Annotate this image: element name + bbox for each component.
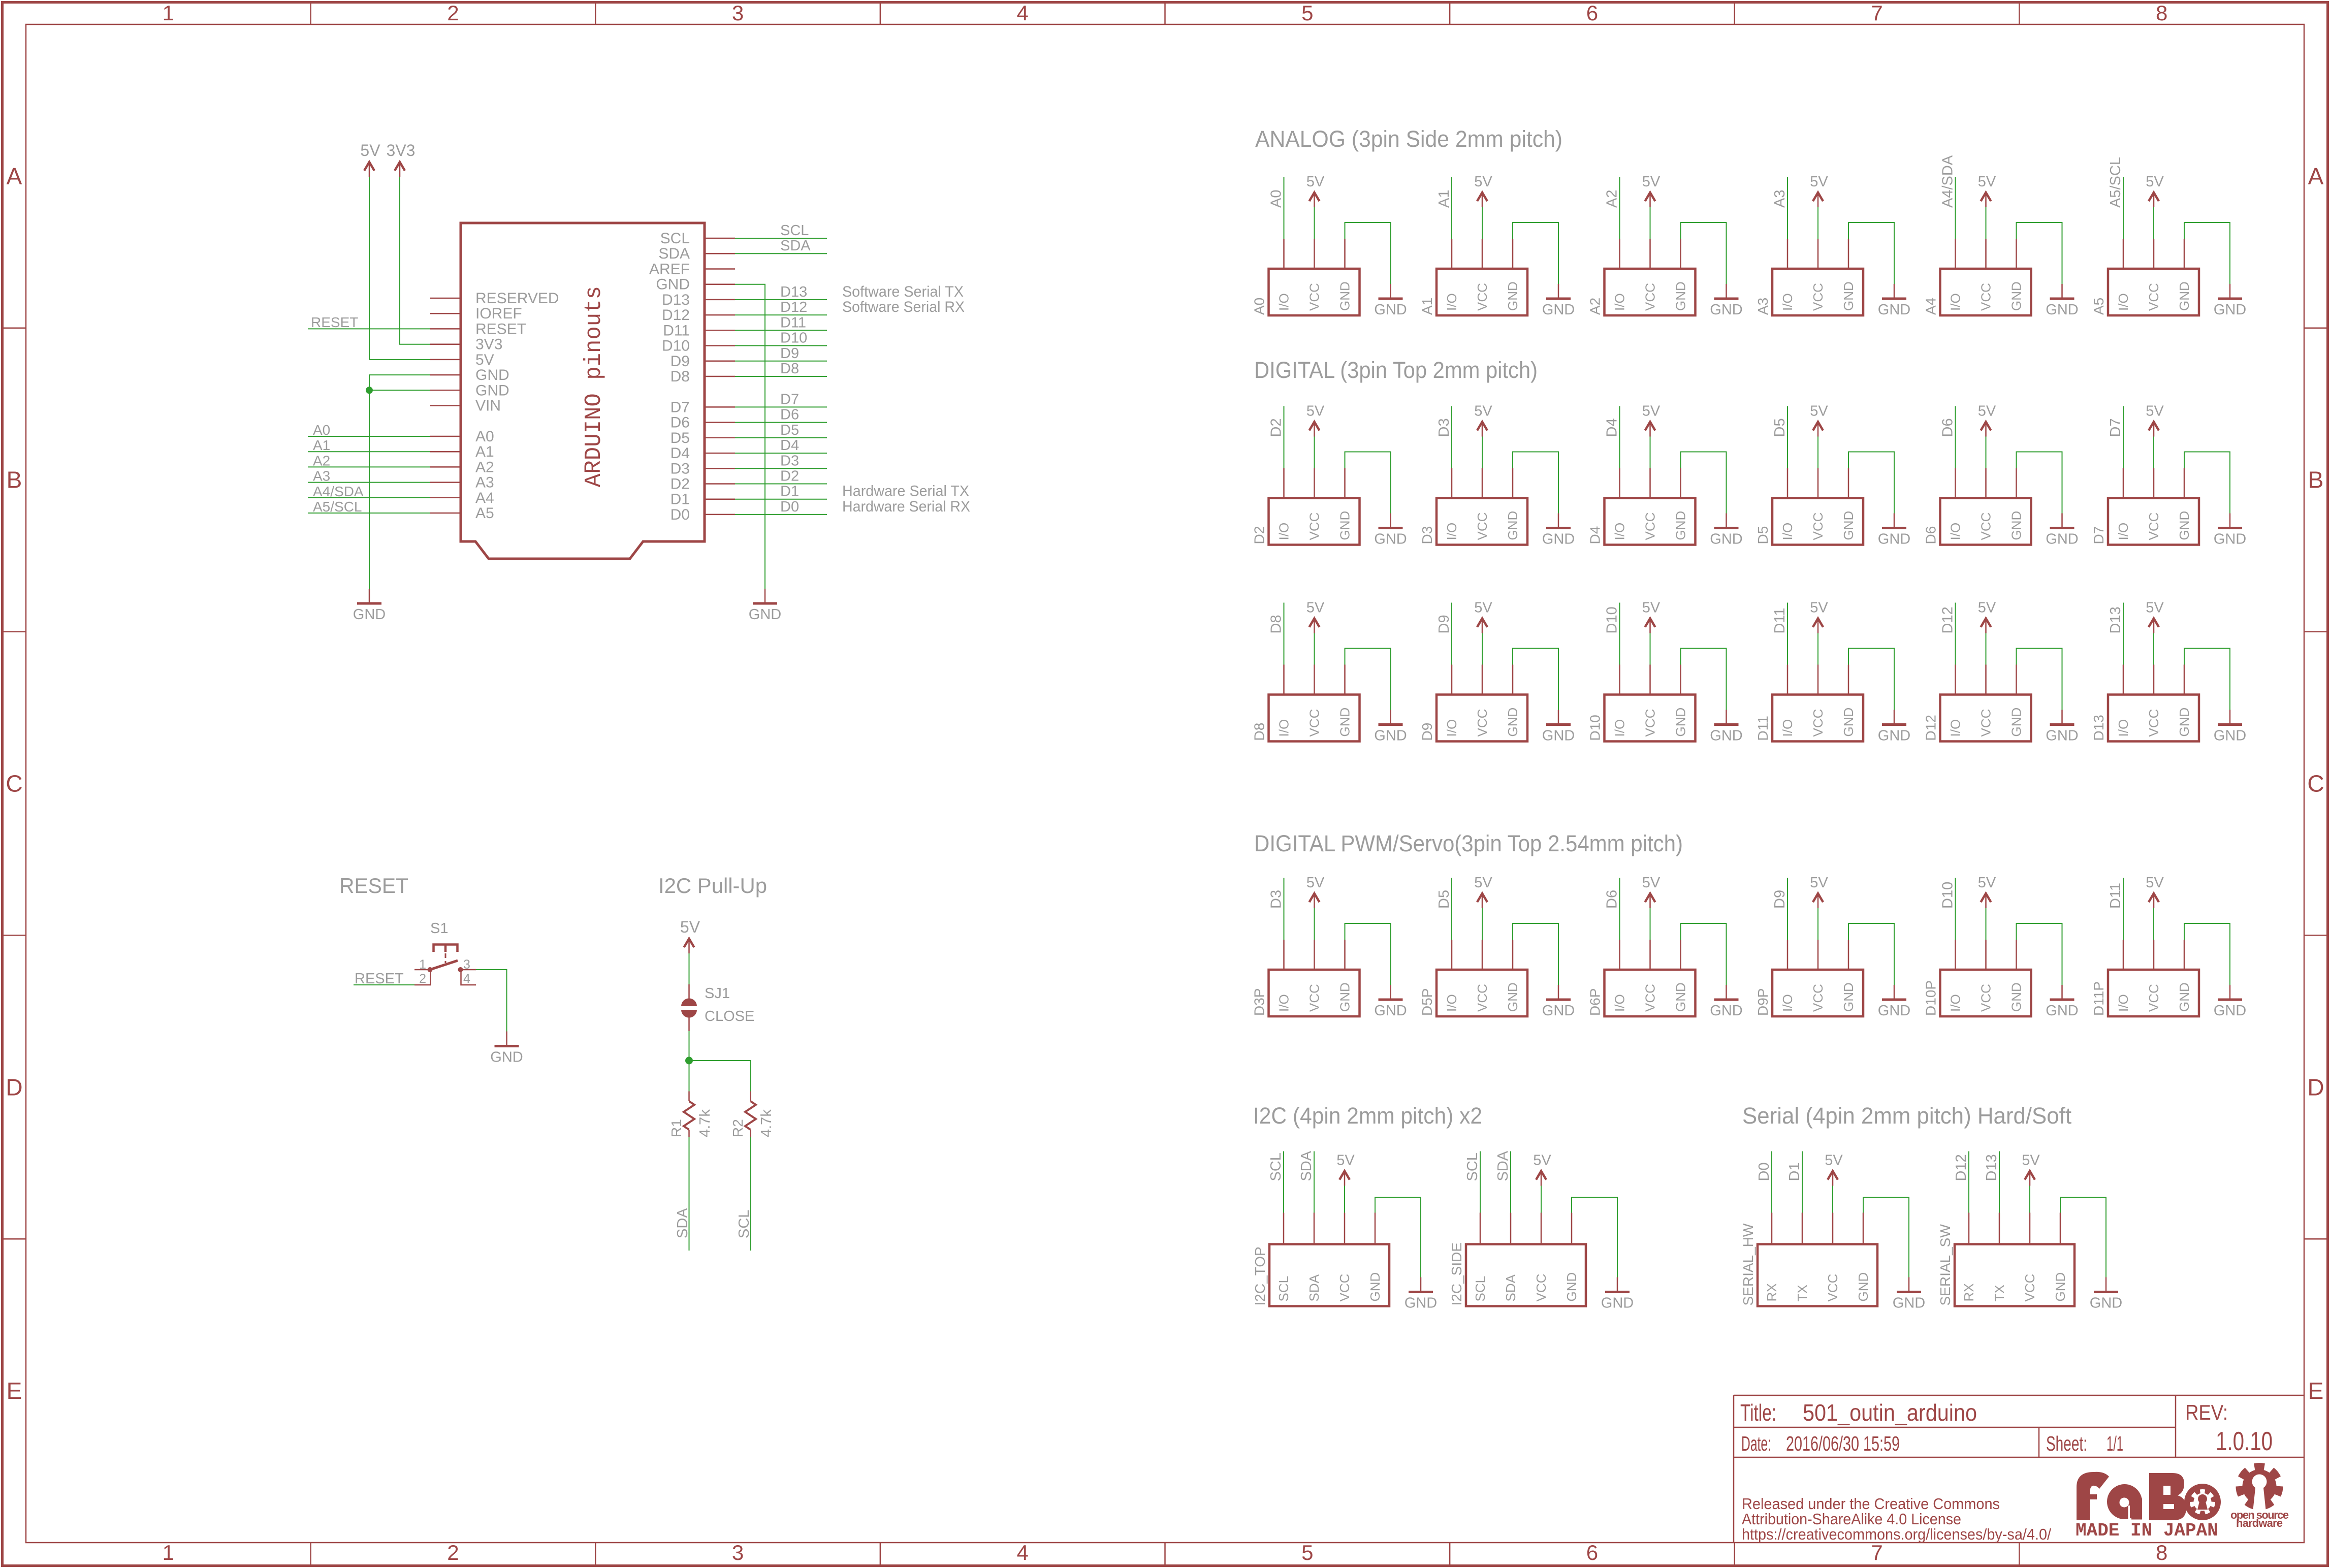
svg-text:D4: D4 (1587, 526, 1603, 545)
svg-text:A2: A2 (1604, 190, 1620, 208)
svg-text:GND: GND (1841, 281, 1856, 311)
svg-text:GND: GND (1337, 281, 1353, 311)
connector D3P (3pin header) (1252, 940, 1360, 1016)
svg-text:SDA: SDA (675, 1208, 691, 1238)
svg-text:GND: GND (1673, 708, 1688, 737)
svg-text:GND: GND (1673, 511, 1688, 540)
wire net D5 (right) (735, 422, 827, 438)
svg-text:D5: D5 (1772, 418, 1788, 437)
power 5V supply of D10 (1642, 600, 1661, 665)
svg-text:GND: GND (749, 606, 781, 623)
svg-text:C: C (6, 771, 22, 797)
svg-text:GND: GND (2046, 728, 2078, 744)
svg-text:GND: GND (656, 276, 690, 293)
wire net SDA (1298, 1150, 1315, 1212)
power 5V supply of SERIAL_HW (1825, 1153, 1843, 1213)
wire net A4/SDA (1940, 155, 1956, 239)
wire 5V to SJ1 (689, 953, 690, 984)
svg-text:GND: GND (2009, 281, 2024, 311)
svg-text:D11P: D11P (2091, 981, 2106, 1016)
connector A1 (3pin header) (1419, 239, 1527, 315)
wire net SCL (1464, 1151, 1481, 1213)
svg-text:SCL: SCL (1473, 1276, 1488, 1302)
ground of D8 (1345, 649, 1407, 744)
wire net D12 (1940, 603, 1956, 665)
wire net D10 (right) (735, 330, 827, 346)
svg-text:VCC: VCC (1810, 283, 1826, 311)
svg-text:D9: D9 (1436, 615, 1452, 633)
license text (1742, 1495, 2051, 1543)
svg-text:5V: 5V (1642, 875, 1661, 891)
svg-text:GND: GND (2009, 708, 2024, 737)
svg-text:D9: D9 (671, 353, 690, 370)
svg-text:SCL: SCL (1276, 1276, 1291, 1302)
svg-text:3: 3 (732, 1, 744, 25)
svg-text:R1: R1 (668, 1119, 684, 1137)
svg-text:D10P: D10P (1923, 980, 1939, 1016)
svg-text:D12: D12 (780, 299, 807, 315)
svg-text:SDA: SDA (1306, 1274, 1322, 1301)
svg-text:VCC: VCC (2146, 709, 2161, 737)
wire net SDA (pull-up) (675, 1137, 691, 1251)
svg-text:SDA: SDA (658, 245, 690, 262)
svg-text:3V3: 3V3 (475, 336, 502, 353)
ground of I2C_TOP (1375, 1198, 1437, 1311)
power 5V supply of D5P (1474, 875, 1492, 940)
svg-text:501_outin_arduino: 501_outin_arduino (1803, 1399, 1977, 1426)
wire net D2 (1268, 406, 1285, 468)
svg-text:GND: GND (2090, 1295, 2122, 1311)
wire GND net (right) (735, 284, 765, 589)
svg-text:GND: GND (1841, 511, 1856, 540)
svg-text:I/O: I/O (1948, 719, 1963, 737)
wire net D13 (1984, 1151, 2000, 1213)
svg-text:I/O: I/O (1444, 523, 1459, 540)
power 5V arrow (top left) (360, 141, 380, 177)
svg-text:RESERVED: RESERVED (475, 290, 559, 307)
svg-text:TX: TX (1795, 1285, 1810, 1301)
connector D5P (3pin header) (1419, 940, 1527, 1016)
svg-text:2: 2 (447, 1541, 459, 1564)
svg-text:D13: D13 (2091, 715, 2106, 741)
power 5V supply of I2C_TOP (1336, 1153, 1355, 1213)
svg-text:hardware: hardware (2236, 1517, 2283, 1529)
connector I2C_SIDE (4pin header) (1449, 1213, 1586, 1306)
svg-text:GND: GND (2177, 511, 2192, 540)
svg-text:VCC: VCC (1978, 283, 1994, 311)
wire net D13 (right) (735, 284, 827, 300)
svg-text:I/O: I/O (1780, 719, 1795, 737)
svg-text:Software Serial TX: Software Serial TX (842, 283, 964, 300)
svg-text:D10: D10 (1604, 606, 1620, 633)
svg-text:GND: GND (1673, 982, 1688, 1012)
svg-text:VCC: VCC (2022, 1274, 2037, 1302)
frame column numbers bottom (163, 1541, 2168, 1564)
svg-text:8: 8 (2156, 1, 2167, 25)
svg-text:7: 7 (1871, 1541, 1882, 1564)
svg-text:GND: GND (1337, 982, 1353, 1012)
svg-text:D11: D11 (2108, 883, 2124, 909)
svg-text:D4: D4 (671, 445, 690, 462)
svg-text:D0: D0 (671, 506, 690, 523)
svg-text:SJ1: SJ1 (705, 985, 730, 1002)
svg-text:GND: GND (2053, 1272, 2068, 1302)
svg-text:I/O: I/O (2116, 994, 2131, 1012)
svg-text:GND: GND (1710, 302, 1742, 318)
svg-text:I/O: I/O (1276, 523, 1292, 540)
frame column numbers top (163, 1, 2168, 25)
power 5V supply of SERIAL_SW (2022, 1153, 2040, 1213)
svg-text:1: 1 (419, 957, 426, 972)
svg-text:5V: 5V (360, 141, 380, 159)
ground of D13 (2184, 649, 2246, 744)
svg-text:I/O: I/O (1276, 719, 1292, 737)
svg-text:RX: RX (1764, 1283, 1779, 1301)
power 5V supply of A4 (1978, 174, 1996, 239)
connector D9 (3pin header) (1419, 665, 1527, 742)
svg-text:D8: D8 (780, 361, 799, 377)
wire net SDA (1495, 1150, 1511, 1212)
svg-text:A: A (7, 163, 22, 189)
svg-text:D4: D4 (1604, 418, 1620, 437)
svg-text:D12: D12 (662, 307, 690, 324)
svg-text:D3P: D3P (1252, 988, 1267, 1016)
svg-text:5V: 5V (2146, 600, 2164, 616)
svg-text:D8: D8 (1252, 723, 1267, 741)
svg-text:GND: GND (2214, 531, 2246, 548)
connector SERIAL_HW (4pin header) (1740, 1213, 1877, 1306)
power 5V supply of D9 (1474, 600, 1492, 665)
svg-text:SDA: SDA (780, 238, 811, 254)
wire net D11 (1772, 603, 1788, 665)
svg-text:D10: D10 (780, 330, 807, 346)
svg-text:GND: GND (2009, 511, 2024, 540)
svg-text:3: 3 (732, 1541, 744, 1564)
wire net D9 (right) (735, 345, 827, 362)
power 5V supply of I2C_SIDE (1533, 1153, 1551, 1213)
svg-text:VCC: VCC (1475, 709, 1490, 737)
ground symbol (S1) (490, 1032, 523, 1066)
svg-text:A2: A2 (475, 459, 494, 475)
sheet text (2046, 1432, 2123, 1455)
svg-text:4: 4 (1017, 1541, 1029, 1564)
svg-text:D11: D11 (663, 322, 690, 339)
svg-text:4: 4 (1017, 1, 1029, 25)
svg-text:D7: D7 (2091, 526, 2106, 545)
svg-text:I/O: I/O (1948, 293, 1963, 311)
wire net D8 (right) (735, 361, 827, 377)
svg-text:GND: GND (1878, 1003, 1910, 1019)
svg-text:I/O: I/O (2116, 523, 2131, 540)
ground of D7 (2184, 452, 2246, 548)
svg-text:SCL: SCL (1464, 1153, 1481, 1181)
svg-text:VCC: VCC (1307, 513, 1322, 540)
svg-text:I/O: I/O (1444, 293, 1459, 311)
svg-text:VCC: VCC (2146, 984, 2161, 1012)
svg-text:5V: 5V (1978, 600, 1996, 616)
svg-text:DIGITAL PWM/Servo(3pin Top 2.5: DIGITAL PWM/Servo(3pin Top 2.54mm pitch) (1254, 830, 1683, 856)
svg-text:D10: D10 (662, 338, 690, 355)
svg-text:SDA: SDA (1503, 1274, 1518, 1301)
svg-text:GND: GND (1374, 1003, 1407, 1019)
svg-text:D7: D7 (671, 399, 690, 415)
svg-text:GND: GND (2177, 281, 2192, 311)
svg-text:5: 5 (1301, 1541, 1313, 1564)
frame row letters left (6, 163, 22, 1404)
svg-text:SERIAL_SW: SERIAL_SW (1937, 1224, 1953, 1306)
svg-text:I/O: I/O (1780, 293, 1795, 311)
ground of D5 (1848, 452, 1910, 548)
svg-text:5V: 5V (2022, 1153, 2040, 1169)
power 5V arrow (pull-up) (680, 918, 700, 953)
svg-text:B: B (2308, 467, 2324, 493)
svg-text:VCC: VCC (1643, 709, 1658, 737)
rev text (2185, 1400, 2273, 1456)
svg-text:GND: GND (1374, 302, 1407, 318)
wire net D10 (1604, 603, 1620, 665)
svg-text:I/O: I/O (1780, 523, 1795, 540)
frame row ticks (3, 328, 2328, 1239)
svg-text:5V: 5V (1642, 403, 1661, 420)
wire net SCL (right) (735, 222, 827, 239)
svg-text:5V: 5V (1978, 875, 1996, 891)
connector D3 (3pin header) (1419, 468, 1527, 545)
svg-text:GND: GND (1337, 708, 1353, 737)
wire net D13 (2108, 603, 2124, 665)
wire net D0 (right) (735, 499, 827, 515)
svg-text:I/O: I/O (2116, 719, 2131, 737)
svg-text:VCC: VCC (1475, 984, 1490, 1012)
svg-text:I/O: I/O (1612, 994, 1627, 1012)
svg-text:3: 3 (463, 957, 470, 972)
FaBo logo (2077, 1472, 2221, 1520)
date text (1741, 1432, 1900, 1455)
svg-text:A5: A5 (2091, 298, 2106, 315)
wire net D12 (right) (735, 299, 827, 315)
svg-text:A0: A0 (475, 428, 494, 445)
power 5V supply of D3P (1306, 875, 1325, 940)
svg-text:4: 4 (463, 972, 470, 986)
power 5V supply of D6P (1642, 875, 1661, 940)
svg-text:MADE IN JAPAN: MADE IN JAPAN (2076, 1520, 2218, 1541)
wire net A4/SDA (left) (308, 484, 430, 499)
ground of D11P (2184, 923, 2246, 1019)
svg-text:D9: D9 (780, 345, 799, 362)
svg-text:4.7k: 4.7k (758, 1109, 775, 1137)
ground of D3 (1513, 452, 1575, 548)
svg-text:1: 1 (163, 1541, 174, 1564)
svg-text:1/1: 1/1 (2106, 1432, 2123, 1455)
svg-text:A3: A3 (1772, 190, 1788, 208)
svg-text:D3: D3 (1436, 418, 1452, 437)
svg-text:Sheet:: Sheet: (2046, 1432, 2087, 1455)
svg-text:VCC: VCC (1307, 709, 1322, 737)
svg-text:ARDUINO pinouts: ARDUINO pinouts (581, 286, 607, 487)
power 5V supply of A1 (1474, 174, 1492, 239)
connector A0 (3pin header) (1252, 239, 1360, 315)
svg-text:D11: D11 (1755, 716, 1771, 741)
svg-text:SCL: SCL (736, 1210, 752, 1238)
svg-text:VCC: VCC (1307, 984, 1322, 1012)
svg-text:5V: 5V (1306, 403, 1325, 420)
svg-text:8: 8 (2156, 1541, 2167, 1564)
svg-text:GND: GND (1505, 511, 1520, 540)
wire net A0 (left) (308, 422, 430, 438)
svg-text:D9: D9 (1772, 890, 1788, 909)
ground symbol (left) (353, 589, 386, 623)
svg-text:AREF: AREF (649, 261, 690, 278)
wire net D0 (1756, 1151, 1772, 1213)
svg-text:DIGITAL (3pin Top 2mm pitch): DIGITAL (3pin Top 2mm pitch) (1254, 357, 1538, 383)
svg-text:D8: D8 (671, 368, 690, 385)
wire GND net (left) (366, 375, 430, 589)
svg-text:GND: GND (475, 382, 509, 399)
wire net A1 (1436, 177, 1452, 239)
svg-text:D6: D6 (671, 414, 690, 431)
svg-text:SCL: SCL (660, 230, 690, 247)
svg-text:D1: D1 (1786, 1162, 1803, 1181)
svg-text:VCC: VCC (1810, 709, 1826, 737)
svg-text:RX: RX (1961, 1283, 1976, 1301)
svg-text:VCC: VCC (1978, 984, 1994, 1012)
svg-text:VCC: VCC (1475, 283, 1490, 311)
svg-text:D6: D6 (1604, 890, 1620, 909)
svg-text:GND: GND (2046, 302, 2078, 318)
solder jumper SJ1 (681, 984, 754, 1031)
svg-text:VCC: VCC (1475, 513, 1490, 540)
wire net A1 (left) (308, 437, 430, 453)
connector D11 (3pin header) (1755, 665, 1863, 742)
svg-text:RESET: RESET (339, 874, 408, 898)
power 5V supply of D5 (1810, 403, 1828, 468)
svg-text:2: 2 (419, 972, 426, 986)
wire net D5 (1436, 878, 1452, 940)
svg-text:1: 1 (163, 1, 174, 25)
svg-text:C: C (2307, 771, 2324, 797)
wire net D6 (1604, 878, 1620, 940)
svg-text:GND: GND (1374, 531, 1407, 548)
wire net D9 (1772, 878, 1788, 940)
svg-text:D3: D3 (780, 453, 799, 469)
svg-text:VCC: VCC (1643, 513, 1658, 540)
wire net SCL (1268, 1151, 1284, 1213)
svg-text:5V: 5V (2146, 875, 2164, 891)
connector A2 (3pin header) (1587, 239, 1696, 315)
svg-text:RESET: RESET (355, 971, 404, 987)
ground of D4 (1681, 452, 1743, 548)
svg-text:TX: TX (1992, 1285, 2007, 1301)
svg-text:A5/SCL: A5/SCL (2108, 157, 2124, 208)
svg-text:I/O: I/O (1612, 523, 1627, 540)
svg-text:VIN: VIN (475, 398, 501, 414)
svg-text:GND: GND (353, 606, 386, 623)
svg-text:I/O: I/O (1948, 994, 1963, 1012)
wire net A2 (left) (308, 453, 430, 468)
svg-text:D9: D9 (1419, 723, 1435, 741)
ground of SERIAL_HW (1863, 1198, 1925, 1311)
svg-text:5V: 5V (1306, 875, 1325, 891)
svg-text:5V: 5V (1810, 403, 1828, 420)
svg-text:D3: D3 (1268, 890, 1285, 909)
svg-text:GND: GND (1542, 531, 1575, 548)
svg-text:GND: GND (1893, 1295, 1925, 1311)
connector D7 (3pin header) (2091, 468, 2199, 545)
ground symbol (right) (749, 589, 781, 623)
svg-text:D7: D7 (780, 391, 799, 407)
svg-text:GND: GND (1505, 708, 1520, 737)
svg-text:E: E (7, 1378, 22, 1404)
svg-text:SDA: SDA (1495, 1150, 1511, 1181)
svg-text:I2C_TOP: I2C_TOP (1252, 1246, 1268, 1305)
svg-text:GND: GND (1542, 728, 1575, 744)
wire junction to R2 (689, 1061, 751, 1092)
svg-text:A5: A5 (475, 505, 494, 522)
resistor R1 4.7k (668, 1092, 713, 1138)
svg-text:D12: D12 (1953, 1154, 1969, 1181)
connector D10 (3pin header) (1587, 665, 1696, 742)
svg-text:GND: GND (2046, 1003, 2078, 1019)
svg-text:GND: GND (1841, 708, 1856, 737)
svg-text:SCL: SCL (780, 222, 809, 239)
svg-text:A4/SDA: A4/SDA (313, 484, 364, 499)
svg-text:GND: GND (1367, 1272, 1383, 1302)
svg-text:D2: D2 (780, 468, 799, 485)
svg-text:5V: 5V (1825, 1153, 1843, 1169)
svg-text:D9P: D9P (1755, 988, 1771, 1016)
svg-text:5V: 5V (1533, 1153, 1551, 1169)
svg-text:GND: GND (2046, 531, 2078, 548)
svg-text:VCC: VCC (1643, 283, 1658, 311)
power 5V supply of D6 (1978, 403, 1996, 468)
svg-text:5V: 5V (475, 351, 494, 368)
svg-text:D10: D10 (1587, 715, 1603, 741)
svg-text:A4: A4 (475, 490, 494, 506)
wire net A5/SCL (2108, 157, 2124, 239)
svg-text:D10: D10 (1940, 882, 1956, 909)
wire junction to R1 (689, 1061, 690, 1092)
ground of D2 (1345, 452, 1407, 548)
svg-text:GND: GND (1542, 302, 1575, 318)
svg-text:D6: D6 (780, 407, 799, 423)
svg-text:I/O: I/O (1276, 994, 1292, 1012)
svg-text:D7: D7 (2108, 418, 2124, 437)
svg-text:SCL: SCL (1268, 1153, 1284, 1181)
svg-text:5V: 5V (1810, 875, 1828, 891)
power 5V supply of A2 (1642, 174, 1661, 239)
IC U1 ARDUINO pinouts symbol (430, 223, 735, 559)
svg-text:I2C (4pin 2mm pitch) x2: I2C (4pin 2mm pitch) x2 (1253, 1103, 1482, 1129)
svg-text:RESET: RESET (475, 321, 526, 337)
wire net D6 (right) (735, 407, 827, 423)
svg-text:A2: A2 (313, 453, 330, 468)
svg-text:GND: GND (1405, 1295, 1437, 1311)
svg-text:A0: A0 (1268, 190, 1285, 208)
power 5V supply of D7 (2146, 403, 2164, 468)
svg-text:A1: A1 (1436, 190, 1452, 208)
svg-text:I/O: I/O (1780, 994, 1795, 1012)
svg-text:5V: 5V (1474, 403, 1492, 420)
ground of D11 (1848, 649, 1910, 744)
svg-text:D13: D13 (780, 284, 807, 300)
svg-text:A3: A3 (475, 474, 494, 491)
svg-text:I/O: I/O (1444, 994, 1459, 1012)
svg-text:I/O: I/O (1612, 293, 1627, 311)
wire net A0 (1268, 177, 1285, 239)
ground of A0 (1345, 222, 1407, 318)
svg-text:B: B (7, 467, 22, 493)
svg-text:GND: GND (2177, 982, 2192, 1012)
connector D10P (3pin header) (1923, 940, 2031, 1016)
